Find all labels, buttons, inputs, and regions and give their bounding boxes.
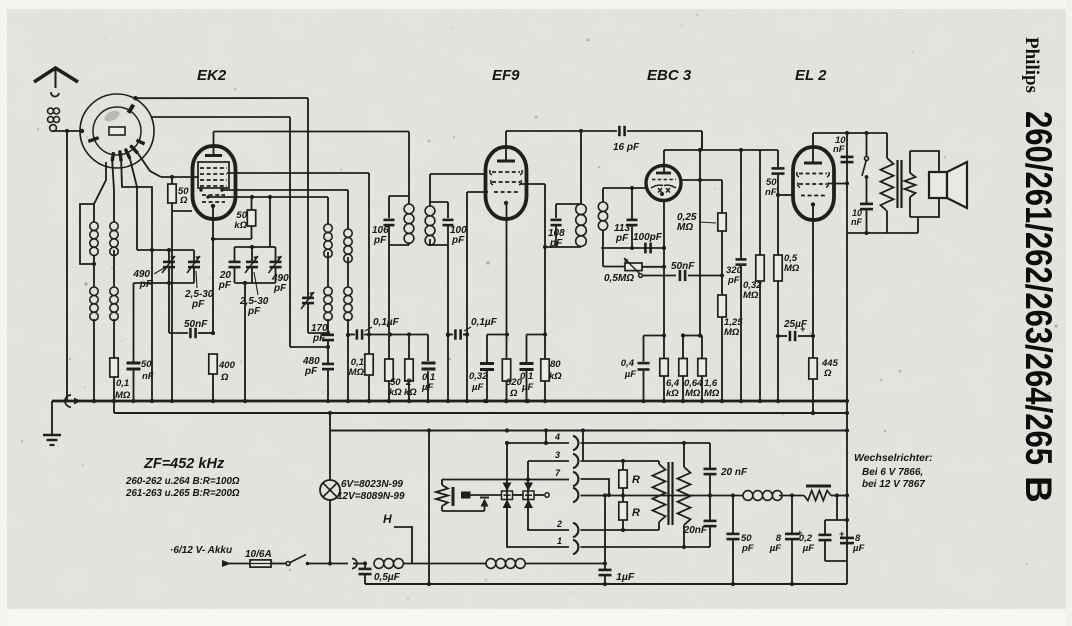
capacitor 100 pF coupling <box>633 232 663 253</box>
svg-text:+: + <box>839 529 845 539</box>
capacitor 0,2 uF <box>799 496 849 562</box>
trimmer capacitor 2,5-30 pF oscillator <box>239 247 269 317</box>
tube EL2 <box>793 147 834 220</box>
wire trimmer rails antenna <box>134 248 195 333</box>
wire drum to coupling coil <box>112 161 114 222</box>
filter choke <box>718 491 804 501</box>
svg-text:pF: pF <box>312 333 326 344</box>
svg-text:0,5MΩ: 0,5MΩ <box>604 273 634 284</box>
choke coil battery 1 <box>374 559 486 569</box>
wire speaker return <box>847 232 918 234</box>
trimmer rails oscillator <box>235 197 276 403</box>
resistor 50 kOhm screen <box>385 359 402 403</box>
wire antenna down to bus <box>66 131 68 401</box>
svg-text:µF: µF <box>852 543 864 554</box>
vibrator socket contact center <box>545 488 579 502</box>
vibrator contact bar <box>452 487 455 506</box>
capacitor 1 uF <box>599 493 635 586</box>
svg-text:pF: pF <box>615 233 629 244</box>
IF transformer II secondary coil <box>598 188 666 250</box>
label EBC 3 <box>647 67 692 84</box>
capacitor 480 pF <box>302 356 334 401</box>
wire feedback down <box>701 131 703 150</box>
svg-text:kΩ: kΩ <box>404 387 417 398</box>
svg-text:pF: pF <box>549 238 563 249</box>
svg-text:bei 12 V 7867: bei 12 V 7867 <box>862 479 925 490</box>
resistor 400 Ohm cathode bias <box>209 354 236 403</box>
svg-text:0,1µF: 0,1µF <box>373 317 400 328</box>
wire screen supply down <box>845 133 849 584</box>
wire pin3 to transformer <box>581 431 660 465</box>
svg-text:EK2: EK2 <box>197 67 227 84</box>
svg-text:kΩ: kΩ <box>389 387 402 398</box>
svg-text:nF: nF <box>851 217 862 227</box>
svg-text:2: 2 <box>556 519 562 529</box>
IF transformer I secondary coil <box>425 202 448 245</box>
label model numbers 260/261/262/263/264/265 B <box>1018 111 1059 503</box>
oscillator coil L6 <box>324 287 332 335</box>
vibrator reed spring <box>436 480 485 512</box>
IF transformer II primary coil <box>543 131 586 249</box>
capacitor 0,1 uF screen EF9 <box>520 332 548 403</box>
svg-text:kΩ: kΩ <box>549 371 562 382</box>
wire EF9 grid <box>465 192 488 403</box>
wire EL2 grid <box>778 194 793 196</box>
svg-text:261-263 u.265 B:R=200Ω: 261-263 u.265 B:R=200Ω <box>125 488 240 499</box>
break symbol battery <box>352 559 365 569</box>
tube EK2 <box>193 146 236 219</box>
wire drum to oscillator line B <box>151 117 330 349</box>
trimmer capacitor 490 pF oscillator <box>269 247 290 294</box>
output transformer secondary <box>905 151 940 233</box>
capacitor 10 nF tone <box>851 177 873 235</box>
wire drum to series resistor <box>138 153 161 177</box>
wire EL2 screen <box>828 181 849 185</box>
capacitor 320 pF <box>726 148 747 403</box>
label ZF frequency <box>143 456 225 472</box>
wire IF I primary return <box>388 245 390 359</box>
wire pin7 row <box>442 477 569 481</box>
capacitor 50 nF EL2 grid <box>765 150 785 198</box>
wire pin1 to capacitor row <box>581 546 711 548</box>
oscillator coil L7 <box>344 229 352 287</box>
svg-text:nF: nF <box>833 144 845 155</box>
svg-text:Ω: Ω <box>509 388 518 399</box>
capacitor 0,4 uF <box>621 336 650 404</box>
wire EL2 cathode <box>812 206 814 336</box>
fuse 10/6A <box>245 549 272 567</box>
svg-text:50: 50 <box>141 359 152 370</box>
vibrator magnet <box>461 492 501 499</box>
capacitor 50 nF left <box>127 283 154 403</box>
capacitor 20 pF padder <box>218 247 241 291</box>
vibrator transformer secondary <box>678 467 691 549</box>
svg-text:0,5µF: 0,5µF <box>374 572 401 583</box>
resistor with shunt bar <box>804 486 849 501</box>
capacitor 8 uF electrolytic 1 <box>769 496 803 587</box>
wire pin1 row <box>507 443 569 547</box>
svg-text:µF: µF <box>624 369 636 380</box>
dial lamp <box>320 431 340 566</box>
antenna <box>34 68 78 97</box>
capacitor 10 nF top <box>833 135 854 162</box>
choke coil battery 2 <box>486 559 607 569</box>
wire EK2 grid1 row <box>208 195 328 224</box>
svg-text:EL 2: EL 2 <box>795 67 827 84</box>
tone switch <box>862 131 869 179</box>
svg-text:100pF: 100pF <box>633 232 663 243</box>
vibrator socket contact 4 <box>554 432 578 450</box>
wire output center line <box>581 493 719 497</box>
svg-text:260-262 u.264 B:R=100Ω: 260-262 u.264 B:R=100Ω <box>125 476 240 487</box>
wire fuse to switch <box>271 563 286 565</box>
svg-text:260/261/262/263/264/265: 260/261/262/263/264/265 <box>1018 111 1059 465</box>
svg-text:µF: µF <box>521 382 533 393</box>
svg-text:EF9: EF9 <box>492 67 520 84</box>
wire EK2 grid2 row <box>222 190 348 229</box>
wire antenna to band switch <box>52 129 81 133</box>
svg-text:B: B <box>1018 476 1059 503</box>
capacitor 8 uF electrolytic 2 <box>839 529 864 554</box>
tube EBC3 <box>646 166 681 201</box>
wire drum to oscillator line A <box>135 98 308 297</box>
vibrator electrode 2 <box>523 491 544 500</box>
resistor 0,5 MOhm grid leak <box>774 195 800 338</box>
wire pin2 row <box>528 461 569 530</box>
capacitor 106 pF <box>372 196 395 246</box>
svg-text:pF: pF <box>247 306 261 317</box>
svg-text:1: 1 <box>557 536 562 546</box>
resistor 320 Ohm cathode EF9 <box>502 359 522 403</box>
svg-text:Philips: Philips <box>1021 37 1042 93</box>
vibrator transformer primary <box>653 464 666 522</box>
wire pin3 row <box>528 460 569 462</box>
trimmer capacitor 2,5-30 pF antenna <box>184 250 214 310</box>
capacitor 170 pF <box>311 323 334 363</box>
trimmer capacitor 490 pF antenna <box>132 250 175 290</box>
vibrator drive arrows bottom <box>503 500 534 509</box>
wire pin4 row <box>505 431 569 446</box>
capacitor 20 nF lower <box>683 496 717 548</box>
vibrator socket contact 7 <box>555 468 578 486</box>
capacitor 16 pF <box>613 126 702 153</box>
svg-text:0,1: 0,1 <box>116 378 129 389</box>
svg-text:R: R <box>632 507 640 519</box>
coupling coil L4 <box>110 287 118 358</box>
vibrator transformer core <box>669 462 673 525</box>
svg-text:pF: pF <box>727 275 740 286</box>
svg-text:10/6A: 10/6A <box>245 549 272 560</box>
vibrator buffer diode <box>480 498 489 512</box>
label H heater <box>383 512 412 564</box>
resistor 0,32 MOhm <box>743 150 764 403</box>
capacitor 113 pF <box>614 188 638 248</box>
break arrow on bus <box>65 395 81 407</box>
label Philips brand <box>1021 37 1042 93</box>
output transformer primary <box>881 133 894 233</box>
svg-text:MΩ: MΩ <box>349 367 365 378</box>
label resistor note 1 <box>125 476 240 487</box>
wire IF I secondary to EF9 grid <box>430 174 486 202</box>
capacitor 20 nF upper <box>704 443 749 496</box>
capacitor 0,1 uF decoupling <box>421 335 436 404</box>
band switch drum S1 <box>80 94 154 168</box>
potentiometer 0,5 MOhm volume <box>603 248 642 284</box>
svg-text:MΩ: MΩ <box>724 327 740 338</box>
supply bus 2 <box>114 401 847 415</box>
label lamp types <box>337 479 405 502</box>
resistor R upper <box>619 461 640 496</box>
svg-text:MΩ: MΩ <box>677 222 693 233</box>
svg-text:Ω: Ω <box>220 372 229 383</box>
antenna coil L2 <box>90 287 98 403</box>
wire switch to choke <box>330 563 348 565</box>
wire EK2 grid4 row <box>227 173 369 335</box>
IF transformer I primary coil <box>389 196 414 245</box>
svg-text:nF: nF <box>142 371 154 382</box>
svg-text:1µF: 1µF <box>616 571 635 583</box>
resistor 80 kOhm <box>520 184 562 403</box>
loudspeaker <box>929 162 967 208</box>
label battery <box>170 545 232 556</box>
wire plate supply line <box>506 129 617 133</box>
antenna coil L1 <box>80 204 98 287</box>
wire IF I secondary return <box>446 245 450 403</box>
svg-text:kΩ: kΩ <box>666 388 679 399</box>
rail cathode left <box>644 335 665 337</box>
wire pin2 to transformer <box>581 522 660 530</box>
svg-text:20 nF: 20 nF <box>720 467 748 478</box>
wire EL2 anode to output transformer <box>813 131 887 147</box>
wire battery lead <box>222 560 250 567</box>
svg-text:R: R <box>632 474 640 486</box>
label EL 2 <box>795 67 827 84</box>
svg-text:pF: pF <box>304 366 318 377</box>
svg-text:pF: pF <box>139 279 153 290</box>
vibrator drive arrows top <box>503 483 534 492</box>
wire EK2 cathode <box>211 206 215 333</box>
oscillator coil L5 <box>324 224 332 287</box>
svg-text:0,1µF: 0,1µF <box>471 317 498 328</box>
svg-text:nF: nF <box>765 187 777 198</box>
wire IF II secondary to EBC3 diode <box>603 186 648 190</box>
capacitor 108 pF <box>548 204 565 249</box>
svg-text:3: 3 <box>555 450 560 460</box>
trimmer capacitor oscillator tracking <box>301 292 330 335</box>
resistor 1,25 MOhm <box>718 295 743 403</box>
capacitor 0,1 uF oscillator <box>348 317 428 340</box>
capacitor 0,32 uF <box>469 332 509 403</box>
svg-text:pF: pF <box>191 299 205 310</box>
battery switch <box>286 555 330 566</box>
supply bus 3 <box>328 411 847 433</box>
svg-text:6V=8023N-99: 6V=8023N-99 <box>341 479 403 490</box>
vibrator socket contact 3 <box>555 450 578 468</box>
wire 0,5 MOhm to bus <box>776 336 780 403</box>
wire feed to PSU <box>427 428 431 586</box>
capacitor 50 nF AVC <box>169 319 215 338</box>
svg-text:pF: pF <box>218 280 232 291</box>
rail anode supply <box>664 131 778 150</box>
wire drum to antenna coil <box>94 162 106 204</box>
capacitor 50 nF AF coupling <box>643 261 725 281</box>
svg-text:H: H <box>383 512 392 526</box>
svg-text:pF: pF <box>451 235 465 246</box>
vibrator electrode 1 <box>502 491 524 500</box>
svg-text:µF: µF <box>802 543 814 554</box>
svg-text:pF: pF <box>273 283 287 294</box>
chassis ground bus <box>52 399 847 403</box>
oscillator coil L8 <box>344 287 352 403</box>
svg-text:400: 400 <box>218 360 236 371</box>
capacitor 50 pF <box>727 496 754 587</box>
label EF9 <box>492 67 520 84</box>
antenna coupling coil <box>48 108 60 132</box>
svg-text:20nF: 20nF <box>683 525 708 536</box>
resistor 445 Ohm <box>809 336 839 415</box>
svg-text:Ω: Ω <box>823 368 832 379</box>
svg-text:·6/12 V- Akku: ·6/12 V- Akku <box>170 545 232 556</box>
label EK2 <box>197 67 227 84</box>
vibrator socket contact 2 <box>556 519 578 537</box>
rail AVC right <box>681 333 702 337</box>
svg-text:MΩ: MΩ <box>743 290 759 301</box>
svg-text:0,32: 0,32 <box>469 371 488 382</box>
wire EBC3 grid line <box>681 148 722 336</box>
resistor 0,64 MOhm <box>679 336 703 404</box>
resistor 50 kOhm <box>213 197 256 239</box>
svg-text:Wechselrichter:: Wechselrichter: <box>854 452 933 464</box>
svg-text:Bei 6 V 7866,: Bei 6 V 7866, <box>862 467 923 478</box>
svg-text:0,4: 0,4 <box>621 358 635 369</box>
svg-text:+: + <box>800 324 806 334</box>
resistor 0,1 MOhm AVC <box>110 358 131 403</box>
svg-text:ZF=452 kHz: ZF=452 kHz <box>143 456 225 472</box>
svg-text:pF: pF <box>373 235 387 246</box>
svg-text:kΩ: kΩ <box>234 220 247 231</box>
PSU ground bus <box>365 575 847 584</box>
wire drum to trimmer rail 2 <box>130 159 137 250</box>
svg-text:16 pF: 16 pF <box>613 142 640 153</box>
svg-text:MΩ: MΩ <box>115 390 131 401</box>
wire pin7 to transformer <box>581 479 612 497</box>
resistor 0,25 MOhm <box>677 180 726 295</box>
svg-text:MΩ: MΩ <box>784 263 800 274</box>
resistor 1,6 MOhm <box>698 336 720 404</box>
svg-text:12V=8089N-99: 12V=8089N-99 <box>337 491 405 502</box>
wire pot body to cathode <box>642 266 664 268</box>
wire EF9 anode top <box>505 131 507 147</box>
wire EBC3 cathode down <box>662 201 666 359</box>
output transformer core <box>898 160 902 208</box>
svg-text:MΩ: MΩ <box>685 388 701 399</box>
svg-text:50nF: 50nF <box>671 261 695 272</box>
wire EK2 anode to IF I <box>214 132 410 197</box>
ground symbol <box>43 401 61 445</box>
capacitor 0,1 uF EF9 grid <box>446 317 498 340</box>
wire EBC3 anode to supply rail <box>663 150 665 173</box>
capacitor 25 uF cathode <box>778 319 815 341</box>
svg-text:µF: µF <box>471 382 483 393</box>
svg-text:µF: µF <box>421 382 433 393</box>
capacitor 100 pF <box>443 202 468 246</box>
coupling coil L3 <box>110 222 118 287</box>
vibrator socket contact 1 <box>557 536 578 554</box>
resistor 2 kOhm <box>404 335 417 404</box>
svg-text:50nF: 50nF <box>184 319 208 330</box>
svg-text:µF: µF <box>769 543 781 554</box>
svg-text:80: 80 <box>550 359 561 370</box>
resistor R lower <box>619 496 640 533</box>
label resistor note 2 <box>125 488 240 499</box>
svg-text:pF: pF <box>741 543 754 554</box>
resistor 0,1 MOhm oscillator <box>349 335 374 404</box>
resistor 50 Ohm <box>161 175 199 403</box>
svg-text:MΩ: MΩ <box>704 388 720 399</box>
svg-text:0,1: 0,1 <box>520 371 533 382</box>
label Wechselrichter note <box>854 452 933 490</box>
svg-text:EBC 3: EBC 3 <box>647 67 692 84</box>
svg-text:Ω: Ω <box>179 195 188 206</box>
svg-text:4: 4 <box>554 432 560 442</box>
wire EF9 cathode <box>506 205 508 359</box>
resistor 6,4 kOhm <box>660 359 680 404</box>
tube EF9 <box>486 147 527 219</box>
wire drum to trimmer rail 1 <box>121 161 154 403</box>
capacitor 0,5 uF battery <box>359 561 401 583</box>
wire pin4 to capacitor row <box>581 441 711 467</box>
